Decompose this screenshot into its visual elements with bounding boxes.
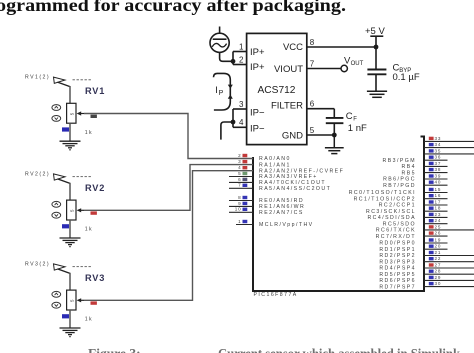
PIC pin 6 (RA4/T0CKI/C1OUT) left [229,177,326,186]
svg-text:RD0/PSP0: RD0/PSP0 [379,241,416,247]
PIC pin 36 (RB3/PGM) right [383,155,448,164]
svg-text:+5 V: +5 V [365,26,385,37]
svg-text:RC5/SDO: RC5/SDO [383,221,416,227]
PIC pin 28 (RD5/PSP5) right [379,269,474,278]
svg-text:4: 4 [238,165,241,170]
IP arrow down [228,85,233,89]
svg-text:GND: GND [282,131,303,142]
RV2 logic square [62,224,69,228]
svg-text:F: F [353,116,357,122]
PIC pin 29 (RD6/PSP6) right [379,275,474,284]
svg-text:RB5: RB5 [402,170,416,176]
svg-text:1k: 1k [85,227,93,233]
PIC pin 35 (RB port) right [424,148,474,154]
svg-text:30: 30 [435,281,442,286]
PIC pin 3 (RA1/AN1) left [238,159,291,168]
PIC pin 2 (RA0/AN0) left [238,153,291,162]
PIC pin 24 (RC5/SDO) right [383,218,448,227]
ground RV3 [60,328,81,337]
svg-text:RD2/PSP2: RD2/PSP2 [379,253,416,259]
PIC pin 33 (RB port) right [424,136,474,142]
ground RV1 [60,141,81,150]
PIC pin 17 (RC2/CCP1) right [379,199,448,208]
pin 6 FILTER [271,100,334,112]
svg-text:4: 4 [239,118,244,127]
PIC pin 30 (RD7/PSP7) right [379,281,474,290]
Vout terminal circle [341,65,347,71]
IP arrow up [228,94,233,98]
RV3 tap voltage square [91,301,97,304]
RV3 terminal arrow [54,264,66,270]
svg-text:IP−: IP− [250,123,265,134]
svg-text:OUT: OUT [351,61,364,67]
svg-text:17: 17 [435,199,442,204]
junction dot GND/CF [332,133,337,138]
svg-text:IP+: IP+ [250,62,265,73]
svg-text:36: 36 [435,155,442,160]
pin 4 IP- [233,118,265,134]
svg-text:IP+: IP+ [250,47,265,58]
PIC pin 20 (RD1/PSP1) right [379,244,447,253]
RV2 hidden-text dashes [73,176,75,177]
svg-text:Figure 3:: Figure 3: [88,346,141,353]
pin 3 IP- [233,100,265,119]
svg-text:28: 28 [435,269,442,274]
PIC pin 34 (RB port) right [424,142,474,148]
svg-text:9: 9 [238,201,241,206]
svg-text:6: 6 [310,100,315,109]
RV1 hidden-text dashes [73,79,75,80]
svg-text:VCC: VCC [283,42,303,53]
svg-text:22: 22 [435,256,442,261]
svg-text:ACS712: ACS712 [258,85,296,96]
svg-text:RC0/T1OSO/T1CKI: RC0/T1OSO/T1CKI [349,190,416,196]
svg-text:24: 24 [435,218,442,223]
svg-text:RV3(2): RV3(2) [25,261,50,267]
svg-text:RD7/PSP7: RD7/PSP7 [379,284,416,290]
RV2 wiper arrow [77,208,82,212]
svg-text:2: 2 [238,153,241,158]
svg-text:RA1/AN1: RA1/AN1 [259,162,291,168]
svg-text:29: 29 [435,275,442,280]
RV1 adjust buttons [52,105,61,111]
PIC pin 39 (RB6/PGC) right [383,173,447,182]
svg-text:IP−: IP− [250,108,265,119]
pin 7 VIOUT [274,59,341,75]
RV2 adjust buttons [52,201,61,207]
svg-text:10: 10 [235,207,242,212]
svg-text:5: 5 [238,171,241,176]
svg-text:6: 6 [238,177,241,182]
RV3 body [67,290,76,310]
potentiometer RV1 [25,75,253,159]
svg-text:1: 1 [239,42,244,51]
svg-text:RV3: RV3 [85,273,105,283]
svg-text:33: 33 [435,136,442,141]
RV2 terminal arrow [54,174,66,180]
svg-text:RC7/RX/DT: RC7/RX/DT [376,234,416,240]
svg-text:P: P [219,90,224,97]
svg-text:RB4: RB4 [402,164,416,170]
svg-text:1: 1 [238,219,241,224]
PIC pin 15 (RC0/T1OSO/T1CKI) right [349,187,448,196]
svg-text:RD5/PSP5: RD5/PSP5 [379,272,416,278]
svg-text:0.1 µF: 0.1 µF [393,72,420,83]
svg-text:1 nF: 1 nF [348,123,367,134]
PIC16F877A body U2 (top edge hidden by pasted figure) [253,137,424,292]
svg-text:1k: 1k [85,130,93,136]
RV1 logic square [62,127,69,131]
pin 5 GND [282,126,334,142]
+5V supply [365,26,385,47]
PIC pin 5 (RA3/AN3/VREF+) left [229,171,318,180]
PIC pin 21 (RD2/PSP2) right [379,250,474,259]
PIC pin 23 (RC4/SDI/SDA) right [367,212,447,221]
wire RV3 top [69,273,71,290]
wire IP- exit [221,122,233,140]
svg-text:RD3/PSP3: RD3/PSP3 [379,259,416,265]
PIC pin 27 (RD4/PSP4) right [379,262,474,271]
svg-text:RB3/PGM: RB3/PGM [383,158,417,164]
svg-text:Current sensor which assembled: Current sensor which assembled in Simuli… [218,346,460,353]
PIC pin 4 (RA2/AN2/VREF-/CVREF) left [238,165,344,174]
svg-text:RD1/PSP1: RD1/PSP1 [379,247,416,253]
svg-text:20: 20 [435,244,442,249]
IP current path loop [214,73,231,110]
svg-text:RC2/CCP1: RC2/CCP1 [379,203,416,209]
svg-text:RV2(2): RV2(2) [25,171,50,177]
svg-text:7: 7 [310,59,315,68]
ground CBYP [367,91,387,97]
wire RV2 top [69,183,71,200]
svg-text:1k: 1k [85,317,93,323]
svg-text:RV2: RV2 [85,183,105,193]
RV3 adjust buttons [52,291,61,297]
RV1 body [67,103,76,123]
svg-text:23: 23 [435,212,442,217]
svg-text:FILTER: FILTER [271,100,303,111]
svg-text:RV1: RV1 [85,86,105,96]
PIC pin 26 (RC7/RX/DT) right [376,231,448,240]
wire RV2 bottom [69,220,71,238]
svg-text:RB6/PGC: RB6/PGC [383,177,416,183]
svg-text:7: 7 [238,183,241,188]
PIC pin 16 (RC1/T1OSI/CCP2) right [354,193,448,202]
PIC pin 7 (RA5/AN4/SS/C2OUT) left [229,183,331,192]
current source IP [210,27,229,53]
capacitor CBYP [367,47,386,91]
PIC pin 8 (RE0/AN5/RD) left [229,195,304,204]
svg-text:16: 16 [435,193,442,198]
potentiometer RV3 [25,171,253,337]
potentiometer RV2 [25,165,253,247]
wire RV1 bottom [69,123,71,141]
wire RV3 wiper to PIC [84,171,253,301]
PIC pin 1 (MCLR/Vpp/THV) left [236,219,314,228]
svg-text:RB7/PGD: RB7/PGD [383,183,416,189]
RV1 tap voltage square [91,115,97,118]
svg-text:RV1(2): RV1(2) [25,75,50,81]
svg-text:2: 2 [239,56,244,65]
wire RV1 wiper to PIC [84,114,253,159]
svg-text:RA0/AN0: RA0/AN0 [259,156,291,162]
svg-text:I: I [215,85,218,96]
svg-text:RA5/AN4/SS/C2OUT: RA5/AN4/SS/C2OUT [259,186,331,192]
svg-text:21: 21 [435,250,442,255]
svg-text:RE2/AN7/CS: RE2/AN7/CS [259,210,304,216]
svg-text:5: 5 [310,126,315,135]
svg-text:19: 19 [435,237,442,242]
pin 1 IP+ [233,42,265,58]
svg-text:38: 38 [435,167,442,172]
RV3 logic square [62,314,69,318]
PIC pin 19 (RD0/PSP0) right [379,237,447,246]
ground RV2 [60,238,81,247]
svg-text:PIC16F877A: PIC16F877A [254,292,298,298]
junction dot IP- [231,120,236,125]
pin 2 IP+ [233,56,265,73]
svg-text:35: 35 [435,148,442,153]
svg-text:C: C [346,111,353,122]
ACS712 body U1 [247,33,307,144]
svg-text:25: 25 [435,224,442,229]
RV1 terminal arrow [54,77,66,83]
svg-text:RD4/PSP4: RD4/PSP4 [379,266,416,272]
svg-text:VIOUT: VIOUT [274,64,303,75]
RV1 wiper arrow [77,111,82,115]
wire RV2 wiper to PIC [84,165,253,211]
svg-text:37: 37 [435,161,442,166]
PIC pin 40 (RB7/PGD) right [383,180,447,189]
PIC pin 10 (RE2/AN7/CS) left [229,207,304,216]
RV3 wiper arrow [77,298,82,302]
svg-text:RD6/PSP6: RD6/PSP6 [379,278,416,284]
svg-text:15: 15 [435,187,442,192]
PIC pin 38 (RB5) right [402,167,448,176]
svg-text:8: 8 [310,38,315,47]
PIC pin 25 (RC6/TX/CK) right [376,224,474,233]
capacitor CF [326,109,344,135]
svg-text:3: 3 [238,159,241,164]
svg-text:RC1/T1OSI/CCP2: RC1/T1OSI/CCP2 [354,196,416,202]
PIC pin 37 (RB4) right [402,161,448,170]
svg-text:8: 8 [238,195,241,200]
svg-text:39: 39 [435,173,442,178]
svg-text:26: 26 [435,231,442,236]
ground CF [325,135,344,154]
PIC pin 18 (RC3/SCK/SCL) right [366,206,447,215]
svg-text:RC6/TX/CK: RC6/TX/CK [376,228,416,234]
svg-text:40: 40 [435,180,442,185]
RV3 hidden-text dashes [73,266,75,267]
svg-text:34: 34 [435,142,442,147]
PIC pin 9 (RE1/AN6/WR) left [229,201,305,210]
wire RV3 bottom [69,310,71,328]
junction dot VCC rail [374,45,379,50]
svg-text:3: 3 [239,100,244,109]
tie pins 3-4 [232,109,234,127]
pin 8 VCC [283,38,376,53]
PIC pin 22 (RD3/PSP3) right [379,256,474,265]
RV2 body [67,200,76,220]
svg-text:27: 27 [435,262,442,267]
svg-text:ogrammed for accuracy after pa: ogrammed for accuracy after packaging. [0,0,346,15]
svg-text:RC4/SDI/SDA: RC4/SDI/SDA [367,215,416,221]
wire source to IP+ tie [220,52,233,61]
wire RV1 top [69,86,71,103]
junction dot IP+ [231,59,236,64]
svg-text:18: 18 [435,206,442,211]
RV2 tap voltage square [91,211,97,214]
svg-text:RC3/SCK/SCL: RC3/SCK/SCL [366,209,416,215]
tie pins 1-2 [232,52,234,65]
svg-text:MCLR/Vpp/THV: MCLR/Vpp/THV [259,222,314,228]
